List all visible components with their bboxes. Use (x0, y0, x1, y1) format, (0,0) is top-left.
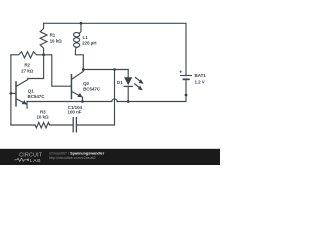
svg-text:L1: L1 (83, 35, 89, 40)
svg-text:Q2: Q2 (83, 81, 89, 86)
svg-text:D1: D1 (117, 80, 123, 85)
svg-text:27 kΩ: 27 kΩ (21, 68, 34, 73)
svg-text:http://circuitlab.com/c2asu62: http://circuitlab.com/c2asu62 (49, 156, 96, 160)
svg-text:R2: R2 (24, 63, 30, 68)
svg-text:CIRCUIT: CIRCUIT (19, 152, 43, 158)
svg-text:220 µH: 220 µH (82, 41, 96, 46)
svg-text:1.2 V: 1.2 V (195, 79, 205, 84)
svg-text:BAT1: BAT1 (195, 73, 207, 78)
svg-text:Q1: Q1 (28, 88, 34, 93)
svg-text:BC547C: BC547C (83, 87, 101, 92)
svg-text:R3: R3 (40, 109, 46, 114)
svg-text:LAB: LAB (30, 158, 42, 164)
svg-text:10 kΩ: 10 kΩ (36, 115, 49, 120)
svg-text:100 nF: 100 nF (68, 110, 82, 115)
svg-text:R1: R1 (50, 32, 56, 37)
svg-text:10 kΩ: 10 kΩ (50, 38, 63, 43)
svg-text:+: + (179, 70, 182, 76)
svg-text:BC547C: BC547C (28, 94, 46, 99)
